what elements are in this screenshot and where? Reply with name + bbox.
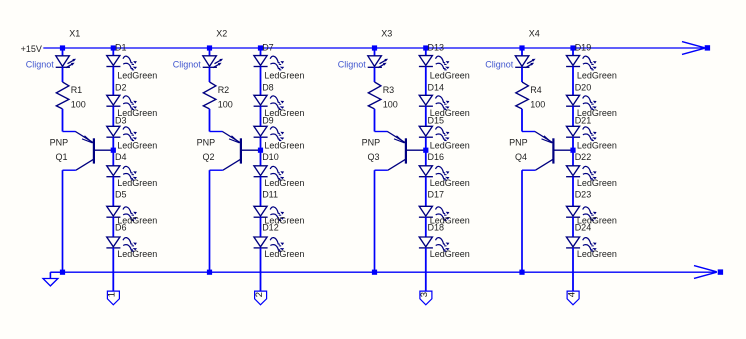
wire to LED D13 anode <box>425 51 427 56</box>
label D17 <box>428 190 445 200</box>
svg-text:LedGreen: LedGreen <box>577 70 617 80</box>
svg-text:1: 1 <box>107 292 118 297</box>
LED D22 symbol <box>566 166 597 180</box>
label LedGreen (value of D23) <box>577 216 617 226</box>
LED Clignot4 symbol <box>515 56 535 68</box>
LED D5 symbol <box>106 206 137 220</box>
label LedGreen (value of D14) <box>430 108 470 118</box>
svg-text:D22: D22 <box>575 152 592 162</box>
label D3 <box>115 115 127 125</box>
label D6 <box>115 223 127 233</box>
label Q4 <box>515 152 527 162</box>
LED D10 symbol <box>254 166 285 180</box>
label LedGreen (value of D3) <box>117 141 157 151</box>
LED D2 symbol <box>106 95 137 109</box>
resistor R3 <box>368 82 381 109</box>
wire to LED D14 anode <box>425 67 427 96</box>
LED D13 symbol <box>419 56 450 70</box>
node X1 junction on +15V rail <box>60 45 65 50</box>
svg-text:Clignot: Clignot <box>338 60 367 70</box>
wire to LED D23 anode <box>572 177 574 207</box>
wire to LED D22 anode <box>572 137 574 166</box>
label Q1 <box>56 152 68 162</box>
power symbol +15V label <box>21 44 42 54</box>
wire to LED D9 anode <box>260 106 262 126</box>
LED D11 symbol <box>254 206 285 220</box>
svg-text:D6: D6 <box>115 223 127 233</box>
label D22 <box>575 152 592 162</box>
svg-text:Q4: Q4 <box>515 152 527 162</box>
svg-text:Clignot: Clignot <box>26 60 55 70</box>
svg-text:D21: D21 <box>575 115 592 125</box>
svg-text:D15: D15 <box>428 115 445 125</box>
label LedGreen (value of D19) <box>577 70 617 80</box>
wire to LED D5 anode <box>112 177 114 207</box>
svg-text:D16: D16 <box>428 152 445 162</box>
label Clignot (LED 3 value) <box>338 60 367 70</box>
label D1 <box>115 43 127 53</box>
wire to LED D7 anode <box>260 51 262 56</box>
svg-text:D20: D20 <box>575 82 592 92</box>
wire X2 node to Clignot2 anode <box>209 51 211 56</box>
wire Clignot1 cathode to R1 <box>62 67 64 82</box>
svg-text:D11: D11 <box>262 190 278 200</box>
label D4 <box>115 152 127 162</box>
label Q2 <box>203 152 215 162</box>
LED D14 symbol <box>419 95 450 109</box>
label 100 (value of R1) <box>71 100 86 110</box>
label LedGreen (value of D24) <box>577 249 617 259</box>
resistor R4 <box>516 82 529 109</box>
wire Q1 collector to ground rail <box>63 170 76 272</box>
wire R1 to Q1 emitter <box>62 109 64 132</box>
label Clignot (LED 2 value) <box>173 60 202 70</box>
label LedGreen (value of D21) <box>577 141 617 151</box>
svg-text:D3: D3 <box>115 115 127 125</box>
label D11 <box>262 190 278 200</box>
LED D18 symbol <box>419 237 450 251</box>
label LedGreen (value of D12) <box>264 249 304 259</box>
svg-text:D1: D1 <box>115 43 127 53</box>
svg-text:LedGreen: LedGreen <box>117 141 157 151</box>
wire to LED D17 anode <box>425 177 427 207</box>
LED D15 symbol <box>419 126 450 140</box>
LED D21 symbol <box>566 126 597 140</box>
junction Q4 collector on ground rail <box>519 270 524 275</box>
junction Q3 collector on ground rail <box>372 270 377 275</box>
label D21 <box>575 115 592 125</box>
bottom rail right arrow terminal <box>694 266 723 279</box>
wire to LED D3 anode <box>112 106 114 126</box>
wire to LED D21 anode <box>572 106 574 126</box>
label PNP (type of Q2) <box>197 137 216 147</box>
label 100 (value of R2) <box>218 100 233 110</box>
svg-text:Q1: Q1 <box>56 152 68 162</box>
svg-text:4: 4 <box>566 292 577 297</box>
svg-text:LedGreen: LedGreen <box>264 178 304 188</box>
label D24 <box>575 223 592 233</box>
label D18 <box>428 223 445 233</box>
wire Clignot4 cathode to R4 <box>521 67 523 82</box>
junction Q2 base / LED chain node <box>258 148 263 153</box>
svg-text:D24: D24 <box>575 223 592 233</box>
svg-text:D19: D19 <box>575 43 592 53</box>
label D8 <box>262 82 274 92</box>
port terminal 4 (pentagon connector pin) <box>566 291 579 305</box>
wire to LED D20 anode <box>572 67 574 96</box>
transistor Q3 PNP <box>375 132 424 171</box>
node X3 junction on +15V rail <box>372 45 377 50</box>
svg-text:100: 100 <box>71 100 86 110</box>
LED D7 symbol <box>254 56 285 70</box>
svg-text:100: 100 <box>530 100 545 110</box>
LED D4 symbol <box>106 166 137 180</box>
svg-text:+15V: +15V <box>21 44 42 54</box>
label D14 <box>428 82 445 92</box>
svg-text:2: 2 <box>254 292 265 297</box>
svg-text:LedGreen: LedGreen <box>264 249 304 259</box>
junction Q2 collector on ground rail <box>207 270 212 275</box>
svg-text:R3: R3 <box>383 85 395 95</box>
wire to LED D18 anode <box>425 217 427 237</box>
svg-text:LedGreen: LedGreen <box>264 70 304 80</box>
label D13 <box>428 43 445 53</box>
label Clignot (LED 4 value) <box>485 60 514 70</box>
connector label X4 <box>529 29 540 39</box>
svg-text:LedGreen: LedGreen <box>577 141 617 151</box>
label R2 <box>218 85 230 95</box>
LED Clignot1 symbol <box>56 56 76 68</box>
label D9 <box>262 115 274 125</box>
wire to LED D12 anode <box>260 217 262 237</box>
svg-text:PNP: PNP <box>509 137 528 147</box>
wire Q3 collector to ground rail <box>375 170 388 272</box>
node X4 junction on +15V rail <box>519 45 524 50</box>
LED Clignot2 symbol <box>203 56 223 68</box>
svg-text:D14: D14 <box>428 82 445 92</box>
wire X4 node to Clignot4 anode <box>521 51 523 56</box>
svg-text:X3: X3 <box>381 29 392 39</box>
wire to LED D15 anode <box>425 106 427 126</box>
svg-text:R4: R4 <box>530 85 542 95</box>
junction Q1 collector / ground <box>60 270 65 275</box>
svg-text:D8: D8 <box>262 82 274 92</box>
resistor R2 <box>203 82 216 109</box>
label D10 <box>262 152 279 162</box>
wire to LED D19 anode <box>572 51 574 56</box>
LED D17 symbol <box>419 206 450 220</box>
transistor Q2 PNP <box>210 132 259 171</box>
label LedGreen (value of D17) <box>430 216 470 226</box>
svg-text:D7: D7 <box>262 43 274 53</box>
svg-text:D23: D23 <box>575 190 592 200</box>
node D7 junction on +15V rail <box>258 45 263 50</box>
svg-text:D17: D17 <box>428 190 445 200</box>
junction Q3 base / LED chain node <box>423 148 428 153</box>
label D2 <box>115 82 127 92</box>
svg-text:PNP: PNP <box>50 137 69 147</box>
label LedGreen (value of D6) <box>117 249 157 259</box>
LED D1 symbol <box>106 56 137 70</box>
svg-text:X4: X4 <box>529 29 540 39</box>
wire Clignot2 cathode to R2 <box>209 67 211 82</box>
wire LED D18 cathode to port 3 (crosses ground rail) <box>425 248 427 291</box>
svg-text:D9: D9 <box>262 115 274 125</box>
svg-text:X1: X1 <box>69 29 80 39</box>
label LedGreen (value of D2) <box>117 108 157 118</box>
wire Clignot3 cathode to R3 <box>374 67 376 82</box>
svg-text:D18: D18 <box>428 223 445 233</box>
LED D19 symbol <box>566 56 597 70</box>
transistor Q1 PNP <box>63 132 112 171</box>
svg-text:LedGreen: LedGreen <box>430 70 470 80</box>
label Q3 <box>368 152 380 162</box>
resistor R1 <box>56 82 69 109</box>
label Clignot (LED 1 value) <box>26 60 55 70</box>
label PNP (type of Q1) <box>50 137 69 147</box>
label LedGreen (value of D20) <box>577 108 617 118</box>
wire to LED D1 anode <box>112 51 114 56</box>
wire X3 node to Clignot3 anode <box>374 51 376 56</box>
label D16 <box>428 152 445 162</box>
label LedGreen (value of D11) <box>264 216 304 226</box>
wire to LED D10 anode <box>260 137 262 166</box>
label LedGreen (value of D10) <box>264 178 304 188</box>
label LedGreen (value of D22) <box>577 178 617 188</box>
top rail right arrow terminal <box>682 42 710 55</box>
svg-text:PNP: PNP <box>197 137 216 147</box>
wire Q2 collector to ground rail <box>210 170 223 272</box>
LED D3 symbol <box>106 126 137 140</box>
LED D12 symbol <box>254 237 285 251</box>
svg-text:LedGreen: LedGreen <box>264 141 304 151</box>
label LedGreen (value of D1) <box>117 70 157 80</box>
port terminal 3 (pentagon connector pin) <box>419 291 432 305</box>
label PNP (type of Q4) <box>509 137 528 147</box>
wire to LED D16 anode <box>425 137 427 166</box>
port terminal 2 (pentagon connector pin) <box>254 291 267 305</box>
wire top +15V rail <box>43 47 704 49</box>
transistor Q4 PNP <box>522 132 571 171</box>
wire LED D12 cathode to port 2 (crosses ground rail) <box>260 248 262 291</box>
svg-text:PNP: PNP <box>362 137 381 147</box>
label 100 (value of R3) <box>383 100 398 110</box>
svg-text:D5: D5 <box>115 190 127 200</box>
svg-text:X2: X2 <box>216 29 227 39</box>
label PNP (type of Q3) <box>362 137 381 147</box>
LED D6 symbol <box>106 237 137 251</box>
label LedGreen (value of D15) <box>430 141 470 151</box>
connector label X1 <box>69 29 80 39</box>
label D12 <box>262 223 279 233</box>
label R4 <box>530 85 542 95</box>
wire to LED D2 anode <box>112 67 114 96</box>
label D15 <box>428 115 445 125</box>
LED D8 symbol <box>254 95 285 109</box>
LED D23 symbol <box>566 206 597 220</box>
svg-text:Q2: Q2 <box>203 152 215 162</box>
svg-text:Clignot: Clignot <box>485 60 514 70</box>
svg-text:D10: D10 <box>262 152 279 162</box>
label LedGreen (value of D5) <box>117 216 157 226</box>
LED D16 symbol <box>419 166 450 180</box>
svg-text:3: 3 <box>419 292 430 297</box>
LED D20 symbol <box>566 95 597 109</box>
wire Q4 collector to ground rail <box>522 170 535 272</box>
node D13 junction on +15V rail <box>423 45 428 50</box>
svg-text:LedGreen: LedGreen <box>430 178 470 188</box>
wire LED D24 cathode to port 4 (crosses ground rail) <box>572 248 574 291</box>
label D23 <box>575 190 592 200</box>
junction Q1 base / LED chain node <box>111 148 116 153</box>
connector label X2 <box>216 29 227 39</box>
label D19 <box>575 43 592 53</box>
label LedGreen (value of D16) <box>430 178 470 188</box>
label LedGreen (value of D7) <box>264 70 304 80</box>
svg-text:LedGreen: LedGreen <box>117 178 157 188</box>
wire LED D6 cathode to port 1 (crosses ground rail) <box>112 248 114 291</box>
svg-text:LedGreen: LedGreen <box>430 141 470 151</box>
wire to LED D6 anode <box>112 217 114 237</box>
LED Clignot3 symbol <box>368 56 388 68</box>
svg-text:LedGreen: LedGreen <box>117 70 157 80</box>
wire R3 to Q3 emitter <box>374 109 376 132</box>
label R3 <box>383 85 395 95</box>
LED D24 symbol <box>566 237 597 251</box>
svg-text:Clignot: Clignot <box>173 60 202 70</box>
label LedGreen (value of D13) <box>430 70 470 80</box>
label D20 <box>575 82 592 92</box>
label R1 <box>71 85 83 95</box>
label LedGreen (value of D9) <box>264 141 304 151</box>
node D1 junction on +15V rail <box>111 45 116 50</box>
port terminal 1 (pentagon connector pin) <box>107 291 120 305</box>
svg-text:Q3: Q3 <box>368 152 380 162</box>
junction Q4 base / LED chain node <box>570 148 575 153</box>
svg-text:100: 100 <box>218 100 233 110</box>
node D19 junction on +15V rail <box>570 45 575 50</box>
svg-text:R1: R1 <box>71 85 83 95</box>
wire to LED D24 anode <box>572 217 574 237</box>
svg-text:D12: D12 <box>262 223 279 233</box>
wire bottom ground rail <box>50 271 716 273</box>
label LedGreen (value of D8) <box>264 108 304 118</box>
connector label X3 <box>381 29 392 39</box>
wire to LED D4 anode <box>112 137 114 166</box>
LED D9 symbol <box>254 126 285 140</box>
label D7 <box>262 43 274 53</box>
wire to LED D8 anode <box>260 67 262 96</box>
svg-text:LedGreen: LedGreen <box>117 249 157 259</box>
ground symbol <box>43 272 63 286</box>
svg-text:D13: D13 <box>428 43 445 53</box>
svg-text:LedGreen: LedGreen <box>577 178 617 188</box>
label D5 <box>115 190 127 200</box>
label LedGreen (value of D4) <box>117 178 157 188</box>
svg-text:D2: D2 <box>115 82 127 92</box>
svg-text:100: 100 <box>383 100 398 110</box>
svg-text:LedGreen: LedGreen <box>430 249 470 259</box>
node X2 junction on +15V rail <box>207 45 212 50</box>
label LedGreen (value of D18) <box>430 249 470 259</box>
wire to LED D11 anode <box>260 177 262 207</box>
svg-text:LedGreen: LedGreen <box>577 249 617 259</box>
label 100 (value of R4) <box>530 100 545 110</box>
wire R2 to Q2 emitter <box>209 109 211 132</box>
svg-text:D4: D4 <box>115 152 127 162</box>
wire R4 to Q4 emitter <box>521 109 523 132</box>
wire X1 node to Clignot1 anode <box>62 51 64 56</box>
svg-text:R2: R2 <box>218 85 230 95</box>
